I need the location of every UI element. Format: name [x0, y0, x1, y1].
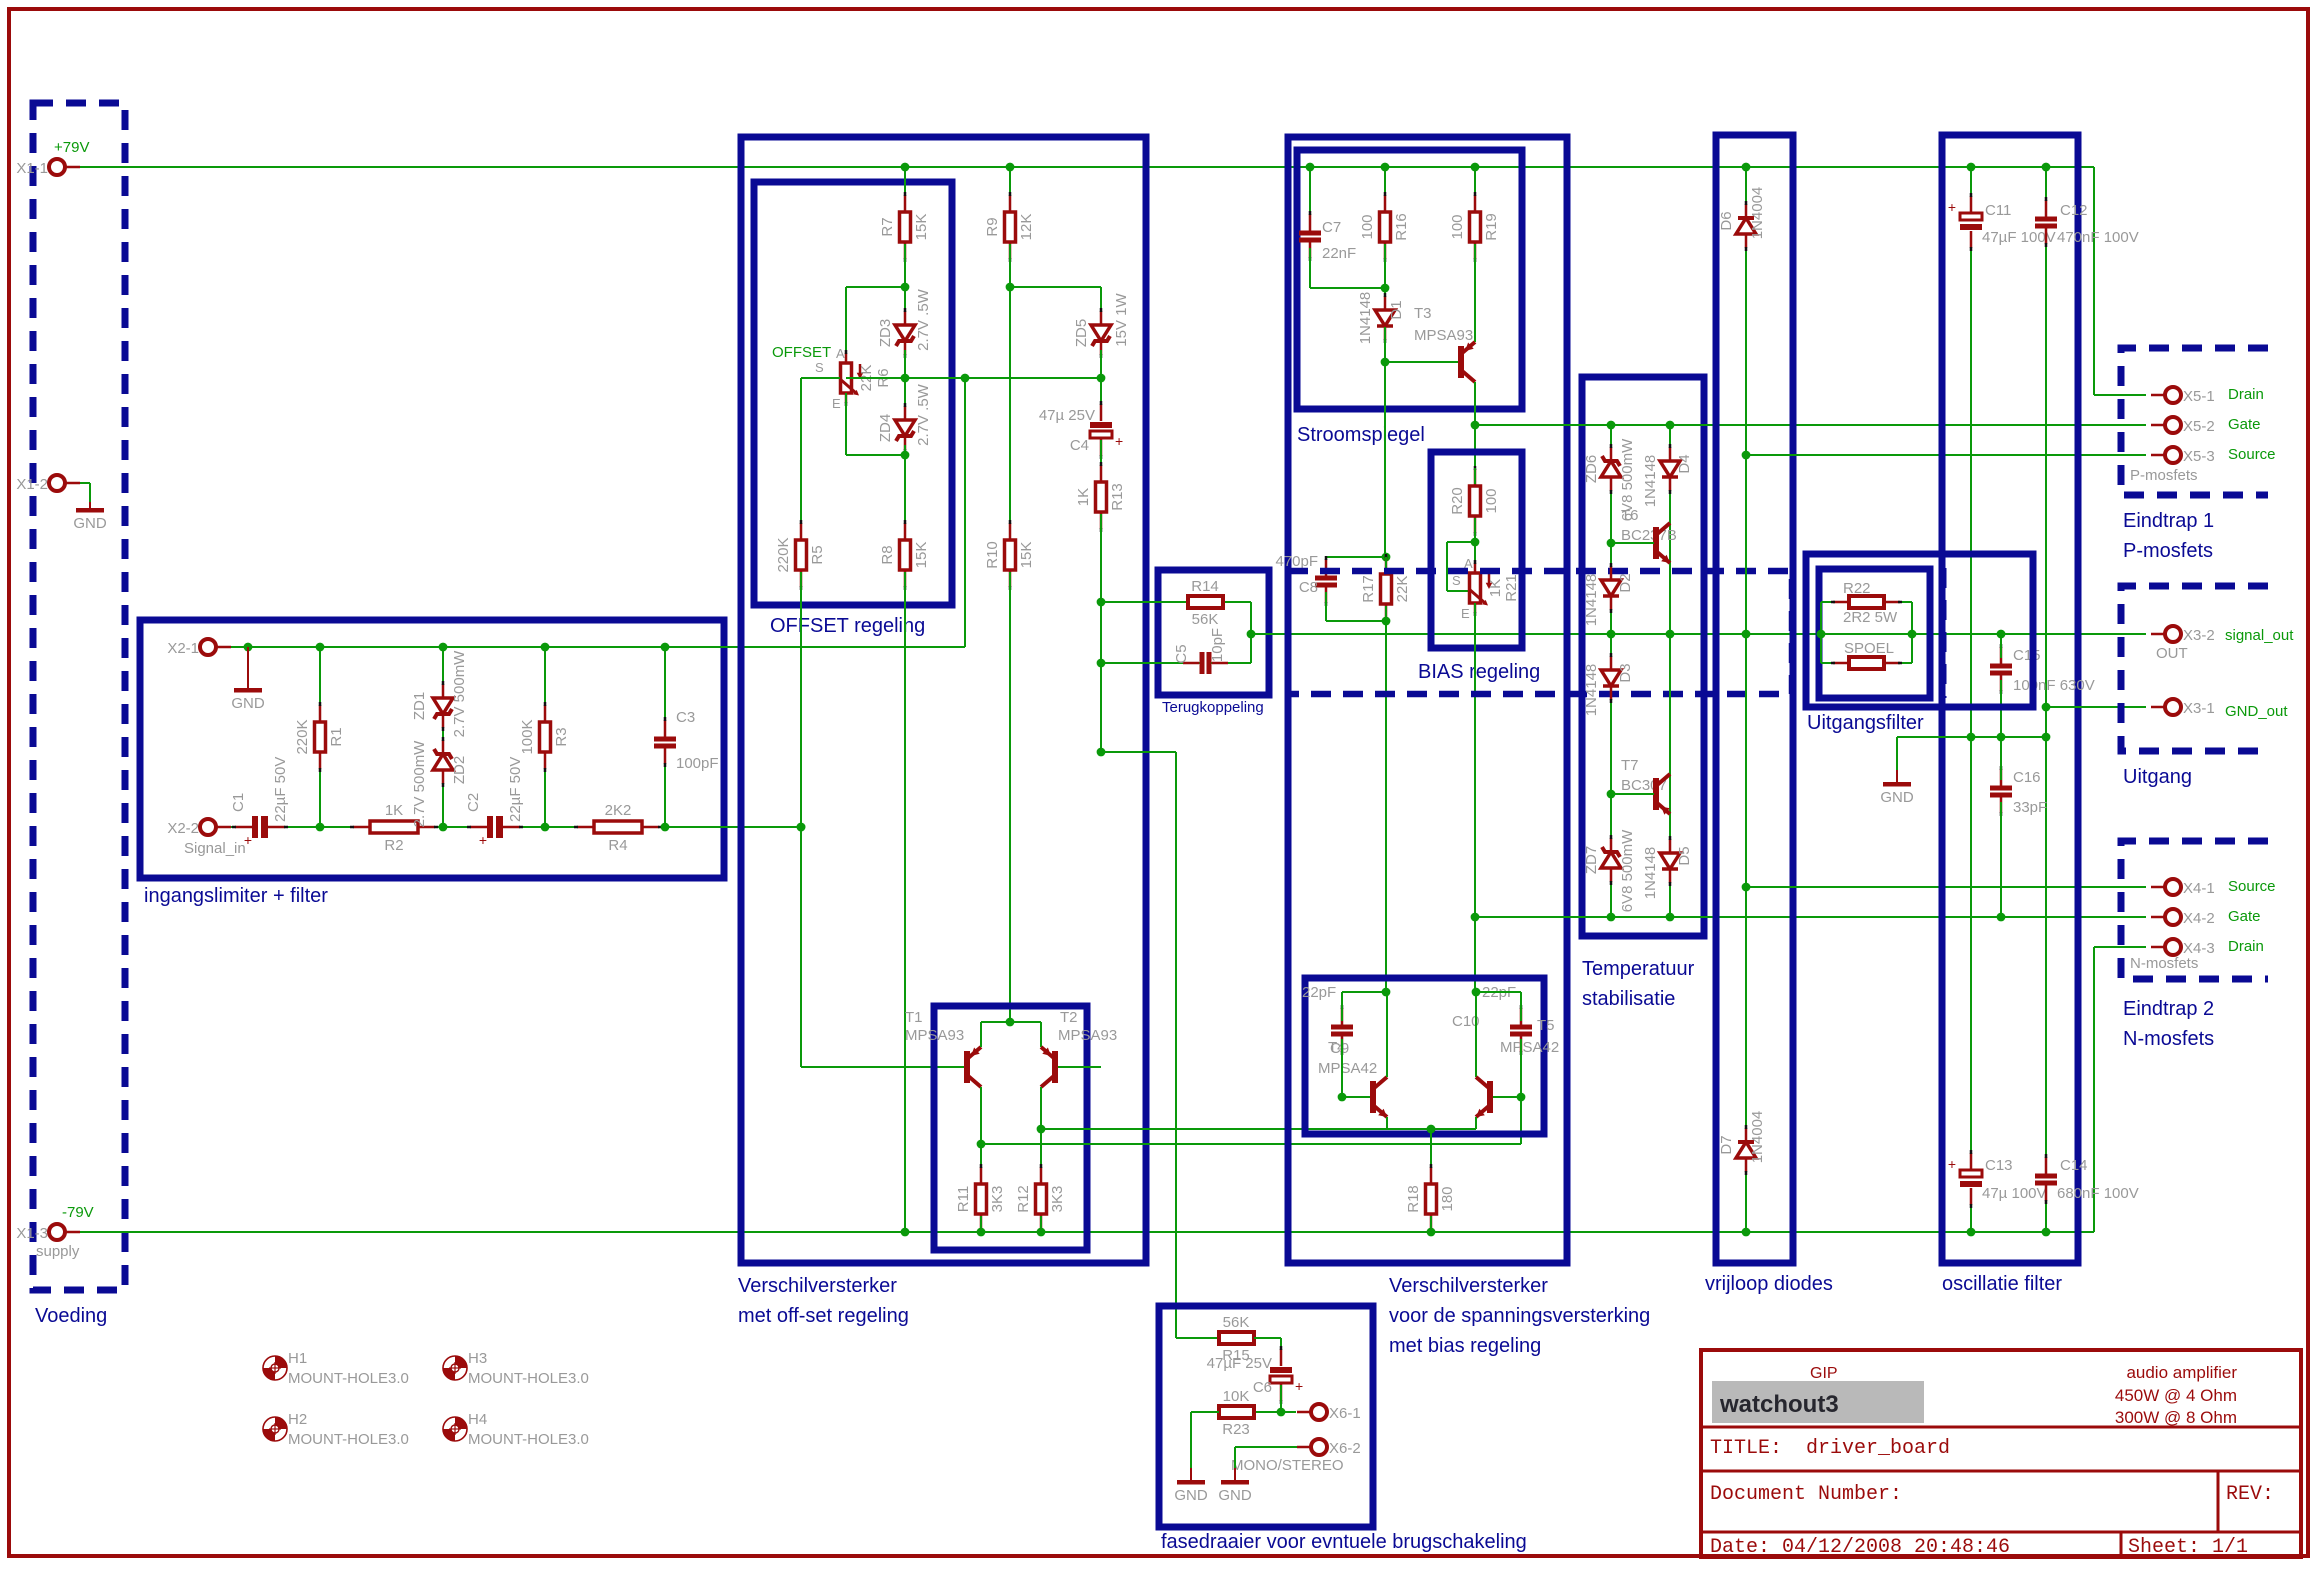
- wire C15 bottom: [2000, 680, 2002, 737]
- wire R5 down to input node: [801, 572, 964, 1067]
- junction ZD5 wiper node: [1097, 374, 1106, 383]
- junction +79V D6: [1742, 163, 1751, 172]
- label P-mosfets: [2130, 467, 2198, 484]
- svg-text:N-mosfets: N-mosfets: [2123, 1028, 2214, 1050]
- svg-text:300W @ 8 Ohm: 300W @ 8 Ohm: [2115, 1408, 2237, 1427]
- svg-text:H3: H3: [468, 1350, 487, 1367]
- wire C12 chain: [2045, 167, 2047, 1232]
- junction T5 collector C10: [1472, 988, 1481, 997]
- svg-text:47µ 100V: 47µ 100V: [1982, 1185, 2047, 1202]
- label X2-2: [167, 820, 199, 837]
- title block 450W: [2115, 1386, 2237, 1405]
- svg-text:180: 180: [1439, 1186, 1456, 1211]
- capacitor C2: [467, 816, 523, 848]
- Stroomspiegel label: [1297, 424, 1425, 446]
- label T3: [1414, 305, 1432, 322]
- junction R5 input filter: [797, 823, 806, 832]
- label ZD3: [877, 319, 894, 347]
- Verschilversterker 2 label line3: [1389, 1335, 1541, 1357]
- wire T3 base: [1385, 361, 1458, 363]
- label X1-3: [16, 1225, 48, 1242]
- svg-text:S: S: [1452, 573, 1461, 588]
- svg-text:56K: 56K: [1192, 611, 1219, 628]
- title block Sheet: [2128, 1536, 2248, 1559]
- potentiometer R6: [840, 350, 863, 406]
- ground symbol near X1-2: [73, 502, 107, 532]
- svg-text:R23: R23: [1222, 1421, 1250, 1438]
- wire R15 to C6: [1254, 1338, 1281, 1360]
- Voeding section label: [35, 1305, 107, 1327]
- svg-text:22µF 50V: 22µF 50V: [507, 757, 524, 822]
- diode D5: [1660, 836, 1680, 886]
- label X4-3: [2183, 940, 2215, 957]
- label C11: [1985, 202, 2011, 219]
- wire R23 net: [1254, 1411, 1281, 1413]
- label X3-2: [2183, 627, 2215, 644]
- label T1: [905, 1009, 923, 1026]
- wire R19 top: [1474, 167, 1476, 194]
- mount hole H3: [443, 1350, 589, 1387]
- wire T3 collector: [1474, 382, 1476, 992]
- junction +79V R16: [1381, 163, 1390, 172]
- label C9: [1330, 1040, 1349, 1057]
- mount hole H1: [263, 1350, 409, 1387]
- svg-text:N-mosfets: N-mosfets: [2130, 955, 2198, 972]
- junction ngate: [1471, 913, 1480, 922]
- wire D4 T6 T7 D5 chain: [1669, 425, 1671, 917]
- wire R22 top left: [1821, 601, 1849, 603]
- svg-text:X5-3: X5-3: [2183, 448, 2215, 465]
- svg-text:ingangslimiter + filter: ingangslimiter + filter: [144, 885, 328, 907]
- svg-text:R14: R14: [1191, 578, 1219, 595]
- label T4 type: [1318, 1060, 1377, 1077]
- svg-text:ZD1: ZD1: [411, 692, 428, 720]
- value C14: [2057, 1185, 2139, 1202]
- title block TITLE: [1710, 1437, 1950, 1460]
- label D4: [1676, 454, 1693, 473]
- svg-text:33pF: 33pF: [2013, 799, 2047, 816]
- label OUT: [2156, 645, 2188, 662]
- junction feedback out: [1247, 630, 1256, 639]
- junction top R3: [541, 643, 550, 652]
- value C8: [1275, 553, 1318, 570]
- junction R11 rail: [977, 1228, 986, 1237]
- wire C3 branch: [664, 647, 666, 827]
- svg-text:signal_out: signal_out: [2225, 627, 2294, 644]
- wire source rail X5-3: [1746, 454, 2146, 456]
- label C7: [1322, 219, 1341, 236]
- wire R22 loop right: [1911, 602, 1913, 663]
- svg-text:C2: C2: [465, 793, 482, 812]
- svg-text:15K: 15K: [913, 214, 930, 241]
- pin X1-1: [49, 159, 80, 175]
- svg-text:MPSA93: MPSA93: [905, 1027, 964, 1044]
- label ZD7: [1583, 846, 1600, 874]
- ingangslimiter + filter label: [144, 885, 328, 907]
- svg-text:2.7V 500mW: 2.7V 500mW: [411, 740, 428, 828]
- capacitor C4: [1090, 401, 1123, 459]
- svg-text:C5: C5: [1173, 644, 1190, 663]
- capacitor C14: [2035, 1154, 2057, 1204]
- svg-text:audio amplifier: audio amplifier: [2126, 1363, 2237, 1382]
- junction D5 OUT: [1666, 630, 1675, 639]
- label X2-1: [167, 640, 199, 657]
- svg-text:R12: R12: [1015, 1185, 1032, 1213]
- pin X5-3: [2151, 447, 2181, 463]
- pin X1-2: [49, 475, 80, 491]
- label D7: [1718, 1135, 1735, 1154]
- wire C16 bottom: [2000, 802, 2002, 917]
- zener diode ZD6: [1601, 444, 1621, 494]
- Verschilversterker 1 label line2: [738, 1305, 909, 1327]
- Terugkoppeling group box: [1158, 570, 1269, 695]
- junction T5 base: [1517, 1093, 1526, 1102]
- wire X2-1 top net: [231, 378, 965, 647]
- svg-text:22pF: 22pF: [1302, 984, 1336, 1001]
- svg-text:MOUNT-HOLE3.0: MOUNT-HOLE3.0: [288, 1370, 409, 1387]
- wire spoel bottom right: [1884, 662, 1912, 664]
- resistor R4: [574, 802, 662, 854]
- svg-text:fasedraaier voor evntuele brug: fasedraaier voor evntuele brugschakeling: [1161, 1531, 1527, 1553]
- svg-text:Uitgang: Uitgang: [2123, 766, 2192, 788]
- label T4: [1328, 1039, 1346, 1056]
- net label Gate X5: [2228, 416, 2261, 433]
- svg-text:C3: C3: [676, 709, 695, 726]
- svg-text:MPSA42: MPSA42: [1318, 1060, 1377, 1077]
- svg-text:6V8 500mW: 6V8 500mW: [1619, 829, 1636, 912]
- label X3-1: [2183, 700, 2215, 717]
- svg-text:450W @ 4 Ohm: 450W @ 4 Ohm: [2115, 1386, 2237, 1405]
- svg-text:voor de spanningsversterking: voor de spanningsversterking: [1389, 1305, 1650, 1327]
- resistor R8: [879, 520, 930, 590]
- svg-text:OUT: OUT: [2156, 645, 2188, 662]
- svg-text:stabilisatie: stabilisatie: [1582, 988, 1675, 1010]
- transistor T6: [1653, 523, 1670, 563]
- diode D3: [1601, 653, 1621, 703]
- junction R12 rail: [1037, 1228, 1046, 1237]
- inductor SPOEL: [1831, 640, 1902, 669]
- vrijloop diodes label: [1705, 1273, 1833, 1295]
- svg-text:X1-1: X1-1: [16, 160, 48, 177]
- svg-text:Stroomspiegel: Stroomspiegel: [1297, 424, 1425, 446]
- svg-text:E: E: [832, 396, 841, 411]
- wire spoel bottom left: [1821, 662, 1849, 664]
- svg-text:E: E: [1461, 606, 1470, 621]
- junction top R1: [316, 643, 325, 652]
- svg-text:P-mosfets: P-mosfets: [2130, 467, 2198, 484]
- label C3: [676, 709, 695, 726]
- svg-text:X3-1: X3-1: [2183, 700, 2215, 717]
- label C2: [465, 793, 482, 812]
- label MONO/STEREO: [1231, 1457, 1344, 1474]
- junction C13 rail: [1967, 1228, 1976, 1237]
- label C13: [1985, 1157, 2013, 1174]
- wire D1 to T3 base: [1384, 327, 1386, 557]
- wire R19 to T3: [1474, 244, 1476, 342]
- junction R18 rail: [1427, 1228, 1436, 1237]
- wire T1 collector: [980, 1087, 982, 1182]
- label T5: [1537, 1017, 1555, 1034]
- svg-text:C6: C6: [1253, 1379, 1272, 1396]
- fasedraaier label: [1161, 1531, 1527, 1553]
- svg-text:R8: R8: [879, 545, 896, 564]
- Uitgangsfilter label: [1807, 712, 1924, 734]
- svg-text:Voeding: Voeding: [35, 1305, 107, 1327]
- diode D7: [1736, 1125, 1756, 1175]
- pin X2-1: [200, 639, 231, 655]
- Verschilversterker 1 label line1: [738, 1275, 897, 1297]
- zener diode ZD5: [1091, 308, 1111, 358]
- svg-text:+: +: [244, 832, 252, 848]
- label D2: [1617, 573, 1634, 592]
- capacitor C7: [1299, 211, 1321, 261]
- capacitor C13: [1948, 1150, 1982, 1208]
- svg-text:GND: GND: [1174, 1487, 1208, 1504]
- resistor R10: [984, 520, 1035, 590]
- label T7 type: [1621, 777, 1667, 794]
- svg-text:R2: R2: [384, 837, 403, 854]
- svg-text:A: A: [836, 346, 845, 361]
- wire +79V rail: [80, 167, 2146, 395]
- junction bottom C3: [661, 823, 670, 832]
- svg-text:1N4004: 1N4004: [1749, 187, 1766, 240]
- net label +79V: [54, 139, 89, 156]
- Verschilversterker 1 group box: [741, 137, 1146, 1263]
- wire R22 loop: [1820, 602, 1822, 663]
- capacitor C6: [1270, 1346, 1303, 1404]
- pin X5-2: [2151, 417, 2181, 433]
- label D3: [1617, 663, 1634, 682]
- svg-text:BC307: BC307: [1621, 777, 1667, 794]
- junction D6 x4 source: [1742, 883, 1751, 892]
- capacitor C8: [1315, 556, 1337, 606]
- svg-text:Gate: Gate: [2228, 416, 2261, 433]
- svg-text:100: 100: [1449, 214, 1466, 239]
- svg-text:R20: R20: [1449, 487, 1466, 515]
- svg-text:oscillatie filter: oscillatie filter: [1942, 1273, 2062, 1295]
- svg-text:R9: R9: [984, 217, 1001, 236]
- label X5-2: [2183, 418, 2215, 435]
- svg-text:220K: 220K: [775, 537, 792, 572]
- svg-text:15K: 15K: [1018, 542, 1035, 569]
- label N-mosfets: [2130, 955, 2198, 972]
- svg-text:10K: 10K: [1223, 1388, 1250, 1405]
- wire pot A loop: [846, 287, 905, 363]
- title block Date: [1710, 1536, 2010, 1559]
- label T7: [1621, 757, 1639, 774]
- junction +79V C12: [2042, 163, 2051, 172]
- value C1 22uF 50V: [272, 757, 289, 822]
- wire R17 top lead: [1385, 557, 1387, 572]
- label C8: [1299, 579, 1318, 596]
- svg-text:1K: 1K: [1487, 579, 1504, 597]
- wire C10 bottom to T5 base: [1491, 1039, 1521, 1097]
- Uitgang dashed box: [2121, 586, 2268, 751]
- diode D1: [1375, 293, 1395, 343]
- junction feedback R14: [1097, 598, 1106, 607]
- wire R18 bottom: [1430, 1216, 1432, 1232]
- value ZD5: [1113, 292, 1130, 346]
- Eindtrap 2 dashed box: [2121, 841, 2268, 979]
- capacitor C1: [232, 816, 288, 848]
- svg-text:R5: R5: [809, 545, 826, 564]
- Uitgangsfilter inner group box: [1819, 569, 1930, 698]
- label C16: [2013, 769, 2041, 786]
- wire T2 collector to T4T5 emitters: [1041, 1128, 1476, 1130]
- svg-text:OFFSET: OFFSET: [772, 344, 831, 361]
- svg-text:S: S: [815, 360, 824, 375]
- junction bottom R1: [316, 823, 325, 832]
- svg-text:R19: R19: [1483, 213, 1500, 241]
- svg-text:1N4148: 1N4148: [1357, 292, 1374, 345]
- net label OFFSET: [772, 344, 831, 361]
- Eindtrap 1 label line1: [2123, 510, 2214, 532]
- svg-text:BIAS regeling: BIAS regeling: [1418, 661, 1540, 683]
- wire R9 to ZD5 top: [1010, 287, 1101, 316]
- wire pot wiper loop: [1447, 542, 1475, 591]
- transistor T2: [1041, 1047, 1058, 1087]
- wire T5 collector: [1475, 992, 1477, 1077]
- junction feedback C5: [1097, 659, 1106, 668]
- svg-text:MPSA93: MPSA93: [1414, 327, 1473, 344]
- svg-text:ZD5: ZD5: [1073, 319, 1090, 347]
- junction T2 collector: [1037, 1125, 1046, 1134]
- svg-text:+79V: +79V: [54, 139, 89, 156]
- Uitgangsfilter outer group box: [1806, 554, 2033, 707]
- wire R3 branch: [544, 647, 546, 827]
- pin label E pot R21: [1461, 606, 1470, 621]
- wire feedback to fasedraaier: [1101, 752, 1176, 1338]
- Verschilversterker 2 label line2: [1389, 1305, 1650, 1327]
- svg-text:Eindtrap 2: Eindtrap 2: [2123, 998, 2214, 1020]
- label C10: [1452, 1013, 1480, 1030]
- wire wiper horizontal: [846, 377, 905, 379]
- junction C16 ngate: [1997, 913, 2006, 922]
- wire R7 to ZD3: [904, 244, 906, 315]
- svg-text:1N4004: 1N4004: [1749, 1111, 1766, 1164]
- svg-text:GND: GND: [1218, 1487, 1252, 1504]
- value C11: [1982, 229, 2056, 246]
- svg-text:Verschilversterker: Verschilversterker: [738, 1275, 897, 1297]
- svg-text:C1: C1: [230, 793, 247, 812]
- value C2 22uF 50V: [507, 757, 524, 822]
- mount hole H4: [443, 1411, 589, 1448]
- label C15: [2013, 647, 2041, 664]
- svg-text:+: +: [1115, 433, 1123, 449]
- Eindtrap 1 dashed box: [2121, 348, 2268, 495]
- junction R17 top: [1382, 553, 1391, 562]
- wire -79V rail: [80, 947, 2146, 1232]
- value ZD4: [915, 383, 932, 446]
- svg-text:T7: T7: [1621, 757, 1639, 774]
- Temperatuur stabilisatie group box: [1582, 377, 1704, 936]
- wire T4 emitter: [1386, 1117, 1388, 1129]
- svg-text:OFFSET regeling: OFFSET regeling: [770, 615, 925, 637]
- pin X3-1: [2151, 699, 2181, 715]
- resistor R2: [350, 802, 438, 854]
- junction D6 out rail: [1742, 630, 1751, 639]
- label T6 type: [1621, 527, 1677, 544]
- junction emitters T4T5: [1427, 1125, 1436, 1134]
- label X1-1: [16, 160, 48, 177]
- transistor T3: [1458, 342, 1475, 382]
- svg-text:met off-set regeling: met off-set regeling: [738, 1305, 909, 1327]
- Eindtrap 2 label line2: [2123, 1028, 2214, 1050]
- svg-text:met bias regeling: met bias regeling: [1389, 1335, 1541, 1357]
- resistor R14: [1188, 578, 1223, 628]
- T4 T5 inner group box: [1305, 978, 1544, 1134]
- svg-text:D3: D3: [1617, 663, 1634, 682]
- title block audio amplifier: [2126, 1363, 2237, 1382]
- wire X1-2 to ground: [80, 483, 90, 502]
- wire R7 top: [904, 167, 906, 194]
- svg-text:SPOEL: SPOEL: [1844, 640, 1894, 657]
- junction T4 base: [1338, 1093, 1347, 1102]
- svg-text:supply: supply: [36, 1243, 80, 1260]
- label ZD6: [1583, 455, 1600, 483]
- Eindtrap 2 label line1: [2123, 998, 2214, 1020]
- svg-text:Eindtrap 1: Eindtrap 1: [2123, 510, 2214, 532]
- wire R12 to rail: [1040, 1216, 1042, 1232]
- svg-text:680nF 100V: 680nF 100V: [2057, 1185, 2139, 1202]
- wire C16 leads: [2000, 737, 2002, 780]
- ground symbol fasedraaier left: [1174, 1468, 1208, 1504]
- svg-text:TITLE: driver_board: TITLE: driver_board: [1710, 1437, 1950, 1460]
- wire ZD4 to R8: [904, 445, 906, 538]
- value C7: [1322, 245, 1356, 262]
- svg-text:C7: C7: [1322, 219, 1341, 236]
- svg-text:X2-1: X2-1: [167, 640, 199, 657]
- wire C10 top loop: [1476, 992, 1521, 1021]
- value D5: [1642, 847, 1659, 900]
- resistor R15: [1219, 1314, 1254, 1364]
- svg-text:watchout3: watchout3: [1719, 1391, 1839, 1418]
- svg-text:3K3: 3K3: [1049, 1186, 1066, 1213]
- svg-text:1N4148: 1N4148: [1642, 847, 1659, 900]
- svg-text:T5: T5: [1537, 1017, 1555, 1034]
- zener diode ZD3: [895, 308, 915, 358]
- vrijloop diodes group box: [1716, 135, 1793, 1263]
- resistor R20: [1449, 466, 1500, 536]
- junction T7 base: [1607, 790, 1616, 799]
- svg-text:R4: R4: [608, 837, 627, 854]
- svg-text:Gate: Gate: [2228, 908, 2261, 925]
- svg-text:X4-1: X4-1: [2183, 880, 2215, 897]
- svg-text:Source: Source: [2228, 878, 2276, 895]
- svg-text:Terugkoppeling: Terugkoppeling: [1162, 699, 1264, 716]
- svg-text:T1: T1: [905, 1009, 923, 1026]
- svg-text:+: +: [1948, 1156, 1956, 1172]
- junction ZD7 bottom: [1607, 913, 1616, 922]
- svg-text:D4: D4: [1676, 454, 1693, 473]
- zener diode ZD1: [433, 681, 453, 731]
- Verschilversterker 2 label line1: [1389, 1275, 1548, 1297]
- wire T2 collector: [1040, 1087, 1042, 1182]
- title block GIP: [1810, 1365, 1838, 1382]
- capacitor C11: [1948, 193, 1982, 251]
- junction feedback down: [1097, 748, 1106, 757]
- junction ZD4 pot E loop: [901, 451, 910, 460]
- value C13: [1982, 1185, 2047, 1202]
- svg-text:ZD7: ZD7: [1583, 846, 1600, 874]
- wire pot E loop: [846, 393, 905, 455]
- resistor R22: [1831, 580, 1902, 626]
- svg-text:P-mosfets: P-mosfets: [2123, 540, 2213, 562]
- svg-text:3K3: 3K3: [989, 1186, 1006, 1213]
- value C9 22pF: [1302, 984, 1336, 1001]
- OFFSET regeling label: [770, 615, 925, 637]
- junction gndout C12: [2042, 703, 2051, 712]
